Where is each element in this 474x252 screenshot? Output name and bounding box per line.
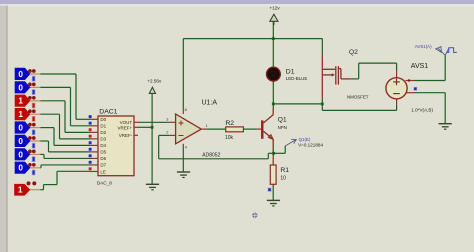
- transistor Q2 NMOSFET: [322, 49, 368, 100]
- wire stub (tan) state 5: [30, 127, 40, 129]
- svg-text:AVS1(A): AVS1(A): [415, 44, 432, 49]
- R1 ground-side marker: [268, 188, 271, 191]
- svg-text:AVS1: AVS1: [411, 63, 428, 70]
- svg-text:D0: D0: [100, 117, 106, 122]
- state 3 high marker: [32, 103, 35, 108]
- DAC1 pin D3: [89, 135, 107, 142]
- svg-text:D2: D2: [100, 130, 106, 135]
- toggle buttons state 4: [28, 109, 32, 113]
- svg-text:D1: D1: [286, 69, 295, 76]
- op-amp U1:A: [176, 100, 221, 159]
- wire: feedback from Q1 emitter to op-amp pin 2: [159, 135, 274, 158]
- toggle buttons state 8: [28, 163, 32, 167]
- toggle buttons state 5: [28, 123, 32, 127]
- voltage probe Q1(E): [285, 137, 323, 148]
- DAC1 pin D6: [89, 154, 107, 161]
- wire: op-amp pin 8 to +12v rail: [182, 39, 184, 110]
- wire: DAC VOUT to op-amp pin 3: [139, 121, 169, 123]
- resistor R2: [225, 120, 243, 141]
- wire: +2.56v rail down to ground / VREF+ feed: [138, 93, 152, 184]
- state 5 low marker: [32, 130, 35, 135]
- state 6 low marker: [32, 143, 35, 148]
- toggle buttons state 6: [28, 136, 32, 140]
- junction at MOSFET gate column: [321, 103, 324, 106]
- wire: logic state 2 to DAC pin D1: [40, 87, 91, 125]
- svg-text:VREF-: VREF-: [119, 133, 133, 138]
- svg-text:+12v: +12v: [270, 6, 281, 11]
- wire: MOSFET drain/gate column: [321, 39, 323, 56]
- wire: Q1 emitter junction to probe riser: [274, 146, 286, 153]
- AVS1 pin B marker: [414, 87, 417, 90]
- logic state input 7 (bit 0): [15, 148, 41, 161]
- toggle buttons state 1: [28, 69, 32, 73]
- svg-text:U1:A: U1:A: [202, 100, 218, 107]
- wire: Q1 collector node to MOSFET gate column: [273, 103, 322, 105]
- svg-text:D7: D7: [100, 163, 106, 168]
- svg-text:1.0*V(A,B): 1.0*V(A,B): [411, 107, 433, 112]
- DAC1 pin D2: [89, 128, 107, 135]
- svg-text:0: 0: [18, 150, 23, 159]
- svg-text:1: 1: [18, 97, 23, 106]
- wire: AVS1 pin B to ground: [415, 93, 446, 124]
- op-amp pin 4 V- stub: [183, 144, 188, 150]
- ground under R1: [267, 200, 280, 206]
- toggle buttons state 2: [28, 83, 32, 87]
- svg-text:D4: D4: [100, 143, 106, 148]
- toggle buttons state 3: [28, 96, 32, 100]
- wire stub (tan) state 7: [30, 153, 40, 155]
- state 2 low marker: [32, 90, 35, 95]
- svg-text:D1: D1: [100, 124, 106, 129]
- svg-text:Q1(E): Q1(E): [299, 137, 311, 142]
- wire: AVS1 pin A to voltage probe: [415, 55, 446, 80]
- wire: R1 bottom to ground: [272, 186, 274, 200]
- op-amp pin 8 V+ stub: [183, 107, 186, 114]
- wire stub (tan) state 2: [30, 86, 40, 88]
- +12v stem: [273, 21, 275, 25]
- wire stub (tan) state 8: [30, 167, 40, 169]
- DAC1 pin D1: [89, 122, 107, 129]
- DAC U/D converter DAC1: [97, 108, 134, 185]
- left window strip: [0, 0, 7, 252]
- junction at Q1 emitter: [272, 152, 275, 155]
- svg-text:DAC1: DAC1: [99, 108, 117, 115]
- svg-text:D3: D3: [100, 137, 106, 142]
- svg-text:NPN: NPN: [278, 125, 287, 130]
- ground under VREF rail: [146, 184, 159, 190]
- svg-text:10k: 10k: [225, 135, 234, 141]
- svg-text:DAC_8: DAC_8: [97, 181, 113, 186]
- wire: logic state 1 to DAC pin D0: [40, 74, 91, 119]
- svg-text:LED-BLUE: LED-BLUE: [286, 76, 308, 81]
- svg-text:R2: R2: [225, 120, 234, 127]
- svg-text:R1: R1: [280, 167, 289, 174]
- AVS1 pin A stub: [406, 79, 415, 81]
- junction at VREF+ tee: [151, 126, 154, 129]
- svg-text:2: 2: [166, 130, 168, 135]
- svg-text:10: 10: [280, 176, 286, 182]
- wire: +12v drop to LED anode: [272, 21, 274, 67]
- svg-text:0: 0: [18, 164, 23, 173]
- origin marker: [251, 212, 258, 219]
- wire: LED cathode down to Q1 collector: [272, 81, 274, 109]
- logic state input 1 (bit 0): [15, 68, 41, 81]
- ground under op-amp: [177, 172, 190, 178]
- wire: +12v top rail: [183, 38, 322, 40]
- logic state input 2 (bit 0): [15, 81, 41, 94]
- wire stub (tan) LE state: [30, 189, 40, 191]
- svg-text:Q2: Q2: [349, 49, 358, 56]
- svg-text:0: 0: [18, 70, 23, 79]
- op-amp pin 2 stub: [166, 130, 175, 136]
- wire stub (tan) state 4: [30, 113, 40, 115]
- svg-text:D6: D6: [100, 156, 106, 161]
- state 7 low marker: [32, 157, 35, 162]
- svg-text:VREF+: VREF+: [118, 125, 133, 130]
- ground under AVS1 return: [439, 124, 452, 130]
- DAC1 pin D4: [89, 141, 107, 148]
- svg-text:0: 0: [18, 137, 23, 146]
- wire: logic state 6 to DAC pin D5: [40, 141, 91, 152]
- logic state input 8 (bit 0): [15, 162, 41, 175]
- wire stub (tan) state 1: [30, 73, 40, 75]
- DAC1 pin VREF+: [118, 125, 139, 130]
- wire: logic state 4 to DAC pin D3: [40, 114, 91, 139]
- state 8 low marker: [32, 170, 35, 175]
- logic state input 4 (bit 1): [15, 108, 41, 121]
- transistor Q1 NPN: [257, 108, 287, 153]
- toggle buttons state 7: [28, 150, 32, 154]
- wire stub (tan) state 6: [30, 140, 40, 142]
- DAC1 pin D7: [89, 161, 107, 168]
- state 4 high marker: [32, 116, 35, 121]
- wire: logic state 7 to DAC pin D6: [40, 154, 91, 158]
- AVS1 pin B stub: [406, 92, 415, 94]
- DAC1 pin D0: [89, 115, 107, 122]
- svg-text:V=0.121884: V=0.121884: [298, 143, 323, 148]
- wire: op-amp pin 4 to ground: [182, 148, 184, 172]
- svg-text:+2.56v: +2.56v: [147, 79, 162, 84]
- svg-text:0: 0: [18, 83, 23, 92]
- voltage probe AVS1(A): [415, 44, 457, 55]
- LED D1 LED-BLUE: [267, 67, 308, 81]
- state 1 low marker: [32, 76, 35, 81]
- svg-text:LE: LE: [100, 169, 106, 174]
- svg-text:0: 0: [18, 124, 23, 133]
- DAC1 pin VOUT: [120, 120, 140, 125]
- power symbol +2.56v: [147, 79, 162, 94]
- wire: logic state 5 to DAC pin D4: [40, 128, 91, 146]
- junction at +12v rail: [272, 37, 275, 40]
- wire: R2 to Q1 base: [243, 128, 256, 130]
- logic state input 5 (bit 0): [15, 121, 41, 134]
- svg-text:8: 8: [185, 107, 187, 112]
- wire: MOSFET source to AVS1 top: [351, 63, 397, 79]
- logic state input LE (bit 1): [14, 181, 40, 195]
- svg-text:3: 3: [166, 117, 168, 122]
- svg-text:1: 1: [18, 186, 23, 195]
- svg-text:D5: D5: [100, 150, 106, 155]
- junction at LED cathode node: [272, 103, 275, 106]
- DAC1 pin LE: [89, 167, 106, 174]
- svg-text:Q1: Q1: [278, 116, 287, 123]
- DAC1 pin D5: [89, 148, 107, 155]
- wire: logic state 3 to DAC pin D2: [40, 101, 91, 133]
- svg-text:NMOSFET: NMOSFET: [347, 95, 369, 100]
- svg-text:AD8052: AD8052: [202, 152, 220, 158]
- op-amp pin 3 stub: [166, 117, 175, 123]
- wire stub (tan) state 3: [30, 100, 40, 102]
- resistor R1: [270, 153, 289, 186]
- power symbol +12v: [270, 6, 281, 22]
- logic state input 6 (bit 0): [15, 135, 41, 148]
- toggle buttons LE: [27, 181, 31, 185]
- wire: logic state LE (bottom) to DAC pin LE: [40, 171, 91, 189]
- svg-text:1: 1: [206, 123, 208, 128]
- logic state input 3 (bit 1): [15, 95, 41, 108]
- wire: jog to AVS1 bottom return: [322, 104, 396, 111]
- DAC1 pin VREF-: [119, 133, 138, 138]
- voltage source AVS1: [386, 63, 434, 113]
- wire: op-amp output to R2: [207, 128, 226, 130]
- op-amp pin 1 output stub: [201, 123, 207, 129]
- top window bar: [0, 0, 474, 4]
- svg-text:1: 1: [18, 110, 23, 119]
- wire: logic state 8 to DAC pin D7: [40, 165, 91, 168]
